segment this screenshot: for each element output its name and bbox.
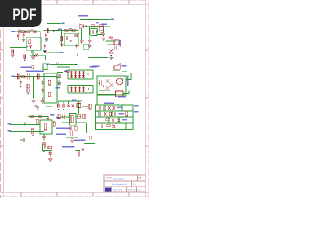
IC U3 box	[91, 28, 97, 35]
junction	[98, 82, 99, 83]
resistor R20	[32, 66, 34, 69]
wire relay right stub	[123, 91, 129, 94]
capacitor left a	[63, 115, 64, 120]
capacitor row2 d	[114, 112, 115, 116]
rail 4	[96, 122, 134, 124]
label row2	[119, 113, 124, 114]
capacitor	[100, 80, 101, 86]
junction	[20, 86, 21, 87]
capacitor C1	[19, 30, 20, 34]
label speaker blue	[62, 146, 75, 148]
resistor below box a	[70, 126, 71, 130]
ground	[110, 58, 114, 60]
+5V arrow mark	[36, 106, 38, 110]
capacitor	[78, 151, 79, 156]
label right 2	[134, 111, 139, 112]
capacitor row3	[112, 118, 113, 122]
PDF badge	[0, 0, 42, 27]
part name label blue	[26, 70, 44, 72]
wire	[88, 57, 108, 59]
svg-text:RE.: RE.	[139, 178, 143, 180]
junction	[32, 135, 33, 136]
capacitor C6	[45, 33, 47, 37]
wire drop right	[103, 27, 105, 33]
junction	[116, 122, 117, 123]
capacitor C17	[41, 88, 43, 93]
wire row	[28, 117, 48, 120]
diode mark	[82, 148, 84, 150]
wire row1	[61, 116, 82, 118]
wire	[46, 52, 60, 54]
wire left feed	[10, 47, 27, 49]
wire drop center	[33, 77, 35, 99]
svg-text:Sheet 1/1: Sheet 1/1	[128, 188, 136, 191]
capacitor C11	[44, 44, 46, 49]
junction	[49, 151, 50, 152]
label	[58, 29, 62, 30]
junction	[87, 73, 88, 74]
wire pair top	[105, 42, 116, 45]
capacitor C9	[92, 30, 93, 34]
resistor R14	[30, 116, 33, 118]
diode D4	[109, 36, 112, 39]
label	[56, 87, 61, 89]
label blue left	[104, 103, 114, 105]
junction	[121, 116, 122, 117]
diode D2	[80, 24, 84, 29]
blue label top	[72, 99, 77, 100]
node label	[60, 52, 63, 53]
resistor R9	[21, 76, 24, 78]
label	[96, 22, 99, 23]
capacitor C5	[47, 28, 48, 33]
capacitor C24	[47, 118, 50, 119]
resistor row2 c	[109, 112, 111, 115]
wire U1 down	[32, 50, 34, 56]
capacitor C14	[28, 74, 30, 80]
frame corner extensions	[0, 0, 148, 197]
ground	[22, 40, 25, 42]
IC U7 box	[70, 114, 77, 126]
small green header box	[43, 64, 47, 70]
IC U6 box	[40, 120, 52, 134]
diode X2	[110, 83, 114, 87]
frame outer border (dashed, cropped at page edges)	[0, 1, 149, 198]
resistor right a	[78, 114, 80, 118]
junction	[44, 151, 45, 152]
diode row4	[113, 124, 116, 128]
junction	[96, 31, 97, 32]
capacitor C26	[24, 55, 26, 60]
svg-text:of 1: of 1	[138, 189, 141, 191]
capacitor C19	[40, 97, 43, 104]
capacitor C20	[42, 137, 46, 141]
frame inner border rectangle	[3, 4, 145, 192]
diode Xb	[72, 105, 74, 107]
capacitor C25	[24, 123, 25, 126]
resistor row3	[106, 119, 109, 121]
resistor R4	[65, 29, 68, 31]
capacitor C3	[29, 45, 32, 48]
rail 3	[96, 116, 134, 118]
blue text row1	[56, 127, 70, 129]
wire top stub	[122, 70, 127, 72]
wire bus2	[10, 131, 44, 133]
junction	[53, 30, 54, 31]
junction	[71, 138, 72, 139]
blue label bottom	[74, 139, 86, 141]
IC U4 box	[44, 73, 57, 103]
ground	[42, 143, 46, 145]
resistor R6	[60, 36, 62, 40]
wire long	[50, 64, 78, 66]
label blue top	[118, 96, 126, 98]
svg-text:Switching PS: Switching PS	[113, 178, 125, 181]
resistor R18	[36, 119, 38, 123]
resistor R11	[48, 92, 50, 97]
capacitor C22	[12, 49, 14, 53]
diode Xa	[67, 104, 70, 107]
resistor right b	[83, 114, 85, 118]
resistor R17	[31, 129, 33, 134]
resistor R1	[21, 31, 24, 33]
header label blue right	[92, 66, 99, 68]
diode row3	[118, 118, 121, 122]
resistor right top	[89, 104, 91, 109]
capacitor row1 b	[104, 106, 105, 110]
junction	[20, 76, 21, 77]
ground	[43, 50, 47, 52]
wire drop mid lower	[89, 35, 91, 40]
junction	[99, 94, 100, 95]
wire stub	[57, 72, 63, 74]
ground	[11, 55, 14, 57]
wire VCC top	[47, 23, 61, 25]
node +5V label	[61, 23, 64, 25]
inductor L1	[99, 25, 103, 27]
vertical label	[120, 40, 122, 47]
wire right stub	[82, 106, 89, 108]
node label	[11, 76, 14, 77]
IC U2 box	[64, 33, 79, 46]
junction	[33, 76, 34, 77]
capacitor C15	[37, 74, 39, 80]
node VIN label	[11, 31, 15, 32]
junction	[75, 64, 76, 65]
flag wire 3	[97, 33, 103, 35]
wire stub	[20, 139, 23, 141]
diode row1 d	[113, 106, 116, 110]
junction	[18, 38, 19, 39]
junction	[63, 109, 64, 110]
resistor left b	[58, 115, 60, 119]
wire drop left	[81, 29, 83, 40]
capacitor C13	[17, 74, 19, 80]
connector J2 green box	[96, 105, 134, 130]
small green box	[84, 44, 89, 50]
wire to relay	[97, 93, 116, 95]
node label	[8, 123, 12, 125]
label right 1	[134, 105, 139, 106]
junction	[28, 93, 29, 94]
junction	[89, 19, 90, 20]
frame tick marks bottom margin	[21, 192, 129, 196]
vertical label right	[127, 76, 129, 87]
wire main row	[44, 30, 79, 32]
lattice internal drops	[99, 105, 126, 130]
wire drop	[86, 123, 88, 133]
resistor right	[126, 111, 128, 116]
crystal Y1 box	[77, 104, 81, 108]
resistor bank row2	[70, 87, 84, 93]
capacitor	[59, 74, 60, 78]
LED D3	[109, 49, 113, 53]
label blue mid	[101, 24, 107, 25]
ground red	[31, 100, 35, 102]
diode row2 b	[104, 112, 107, 116]
ground	[60, 45, 64, 47]
wire drop mid	[89, 26, 91, 35]
capacitor C2	[23, 32, 25, 39]
resistor R3	[29, 40, 31, 44]
capacitor big	[71, 131, 73, 136]
capacitor C16	[41, 81, 43, 85]
node label LED	[90, 66, 97, 68]
wire top	[58, 100, 82, 102]
resistor R10	[48, 80, 50, 85]
resistor R12	[27, 84, 29, 88]
junction	[105, 94, 106, 95]
resistor R15	[38, 116, 41, 118]
wire L	[43, 144, 52, 151]
flag wire 4	[106, 39, 118, 41]
IC U1 box	[27, 37, 41, 50]
wire stub	[94, 26, 100, 28]
label dark	[35, 105, 37, 106]
svg-text:Date: 4/21: Date: 4/21	[113, 188, 122, 191]
ground	[45, 39, 48, 41]
capacitor	[44, 144, 45, 148]
wire main	[14, 76, 57, 78]
wire drop	[43, 134, 45, 140]
capacitor row1 a	[99, 106, 100, 110]
junction	[86, 26, 87, 27]
junction	[58, 109, 59, 110]
capacitor bottom right	[90, 136, 92, 139]
diode X1	[106, 79, 110, 83]
resistor R16	[53, 122, 55, 126]
junction	[27, 124, 28, 125]
rail 2	[96, 110, 134, 112]
wire bus1	[10, 124, 40, 126]
capacitor C8	[80, 40, 84, 43]
node label	[8, 130, 12, 132]
title block row3 logo blob	[105, 187, 111, 191]
red bar	[100, 32, 102, 34]
capacitor C12	[75, 44, 77, 48]
junction	[36, 131, 37, 132]
junction	[26, 46, 27, 47]
capacitor C7	[66, 36, 67, 40]
wire bottom	[84, 142, 95, 144]
junction	[70, 40, 71, 41]
wire stub top	[57, 66, 70, 68]
frame tick marks side margins	[0, 50, 148, 146]
section title blue	[78, 15, 88, 17]
ground	[31, 57, 35, 59]
junction	[106, 116, 107, 117]
resistor	[48, 146, 52, 148]
junction	[58, 80, 59, 81]
rail 2 bottom	[68, 86, 93, 94]
ground	[57, 83, 61, 85]
wire input row	[15, 31, 40, 33]
wire to U1	[39, 32, 41, 37]
junction	[96, 122, 97, 123]
resistor	[66, 70, 69, 72]
resistor row4	[107, 125, 110, 127]
junction	[97, 30, 98, 31]
resistor R2	[27, 31, 30, 33]
resistor inside	[71, 115, 73, 122]
wire J box to lattice	[96, 95, 98, 105]
svg-text:PDF: PDF	[13, 6, 37, 24]
resistor R7	[75, 35, 78, 37]
ground	[48, 159, 52, 161]
svg-text:TITLE:: TITLE:	[106, 178, 112, 180]
junction	[34, 55, 35, 56]
capacitor C18	[20, 80, 22, 84]
buzzer LS1	[114, 63, 120, 69]
junction	[122, 78, 123, 79]
wire row2	[62, 122, 87, 124]
wire drops	[58, 101, 68, 104]
resistor below box b	[75, 126, 77, 130]
capacitor row2 a	[99, 112, 100, 116]
junction	[25, 76, 26, 77]
capacitor Cb	[63, 104, 64, 108]
label	[122, 65, 127, 67]
rail 1 top	[68, 69, 93, 71]
title block outline	[104, 175, 145, 192]
label	[69, 28, 72, 29]
junction	[88, 88, 89, 89]
junction	[96, 110, 97, 111]
label OSC	[56, 117, 61, 119]
svg-text:1.0: 1.0	[133, 184, 136, 186]
resistor R19 inside U6	[44, 124, 46, 130]
node label	[46, 63, 50, 65]
capacitor Ca	[58, 104, 60, 108]
junction	[103, 85, 104, 86]
transistor Q1 circle	[116, 78, 122, 84]
junction	[31, 51, 32, 52]
resistor R5	[72, 29, 75, 31]
capacitor C10	[102, 33, 105, 36]
wire stub	[76, 149, 81, 151]
resistor bank row1	[70, 71, 84, 78]
label row1	[117, 106, 122, 107]
capacitor C23	[88, 40, 91, 44]
left stub wire	[56, 77, 60, 79]
wire right stub	[126, 73, 131, 80]
rail 2 top	[68, 85, 93, 87]
junction	[77, 54, 78, 55]
capacitor vert	[49, 153, 52, 158]
wire mid row	[84, 25, 110, 27]
blue text row2	[56, 133, 66, 135]
net label at rail end	[111, 19, 114, 21]
wire inside	[99, 90, 110, 92]
junction	[25, 31, 26, 32]
ground	[70, 141, 74, 143]
junction	[111, 55, 112, 56]
ground	[88, 45, 92, 47]
IC U5 green box	[97, 76, 126, 95]
node label	[50, 114, 54, 116]
frame tick marks top margin	[57, 0, 129, 4]
wire	[30, 56, 46, 60]
label	[64, 71, 68, 72]
capacitor C4	[17, 34, 19, 38]
capacitor C21	[23, 138, 24, 142]
relay K1 box	[116, 91, 124, 97]
capacitor row4	[101, 124, 102, 128]
junction	[57, 30, 58, 31]
wire center drop	[61, 31, 63, 46]
rail 1 bottom	[68, 70, 93, 79]
wire stub	[46, 106, 52, 108]
svg-text:Doc.Number 10-2: Doc.Number 10-2	[112, 183, 127, 186]
label row3	[122, 119, 127, 120]
relay K2 box	[114, 40, 119, 45]
resistor R8	[91, 25, 94, 27]
junction	[24, 60, 25, 61]
diode D5	[35, 54, 38, 57]
resistor R13	[27, 89, 29, 93]
wire top rail	[80, 19, 111, 21]
capacitor pair	[115, 46, 117, 50]
ground	[102, 39, 105, 41]
diode X3	[106, 86, 110, 90]
part label line1	[21, 66, 32, 68]
diode D1	[34, 30, 37, 33]
wire	[112, 70, 119, 72]
label R2 value	[30, 29, 33, 30]
varistor RV1 box	[99, 26, 103, 30]
diode row1 c	[108, 106, 111, 110]
wire	[66, 136, 78, 138]
wire long vertical	[78, 101, 80, 114]
red tick on wire	[57, 63, 59, 65]
